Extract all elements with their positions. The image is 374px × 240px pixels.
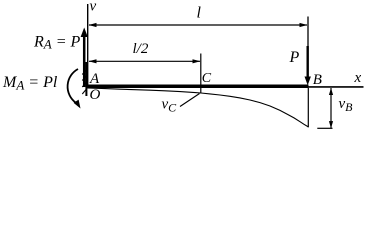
- svg-text:l/2: l/2: [133, 41, 149, 57]
- moment arrowhead: [74, 100, 81, 109]
- svg-text:O: O: [90, 87, 101, 103]
- svg-text:C: C: [202, 71, 212, 86]
- reaction force arrow RA: [83, 35, 86, 87]
- support hatching: [82, 70, 86, 94]
- svg-text:v: v: [90, 0, 97, 14]
- vB arrowhead down: [329, 121, 333, 128]
- v axis line: [87, 4, 89, 87]
- load force arrow P: [307, 46, 309, 79]
- svg-text:x: x: [354, 70, 362, 86]
- svg-text:l: l: [197, 5, 202, 22]
- dimension line l/2: [89, 60, 200, 62]
- extension tick at C: [200, 54, 202, 94]
- arrowhead left of l: [89, 23, 97, 27]
- extension line below B: [307, 88, 309, 127]
- deflection curve: [87, 88, 309, 127]
- leader line for vC: [180, 94, 200, 107]
- svg-text:P: P: [289, 49, 300, 66]
- x axis line: [309, 86, 364, 88]
- svg-text:A: A: [89, 71, 100, 87]
- vB arrowhead up: [329, 88, 333, 95]
- arrowhead left of l/2: [89, 59, 97, 63]
- arrowhead right of l: [300, 23, 308, 27]
- extension line at right end of l: [307, 17, 309, 47]
- fixed support line: [85, 62, 87, 96]
- moment arrow MA arc: [68, 69, 78, 103]
- vB dimension line: [330, 88, 332, 128]
- beam: [86, 85, 309, 89]
- svg-text:B: B: [313, 72, 322, 88]
- arrowhead right of l/2: [193, 59, 201, 63]
- svg-text:MA = Pl: MA = Pl: [2, 74, 58, 92]
- dimension line l: [89, 24, 307, 26]
- bottom tick for vB: [317, 127, 332, 129]
- svg-text:RA = P: RA = P: [33, 33, 81, 51]
